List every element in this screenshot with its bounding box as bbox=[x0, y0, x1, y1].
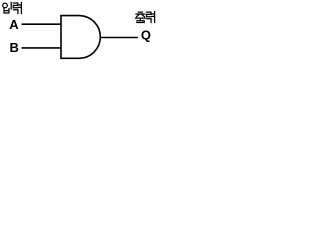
AND gate U1 bbox=[61, 16, 100, 59]
wire output bbox=[100, 37, 138, 39]
label 입력 (input) bbox=[3, 2, 22, 13]
wire input B bbox=[22, 47, 62, 49]
wire input A bbox=[22, 23, 62, 25]
label 출력 (output) bbox=[136, 12, 155, 23]
background bbox=[0, 0, 157, 64]
svg-text:Q: Q bbox=[141, 28, 151, 43]
svg-text:B: B bbox=[9, 40, 18, 55]
svg-text:A: A bbox=[9, 17, 19, 32]
